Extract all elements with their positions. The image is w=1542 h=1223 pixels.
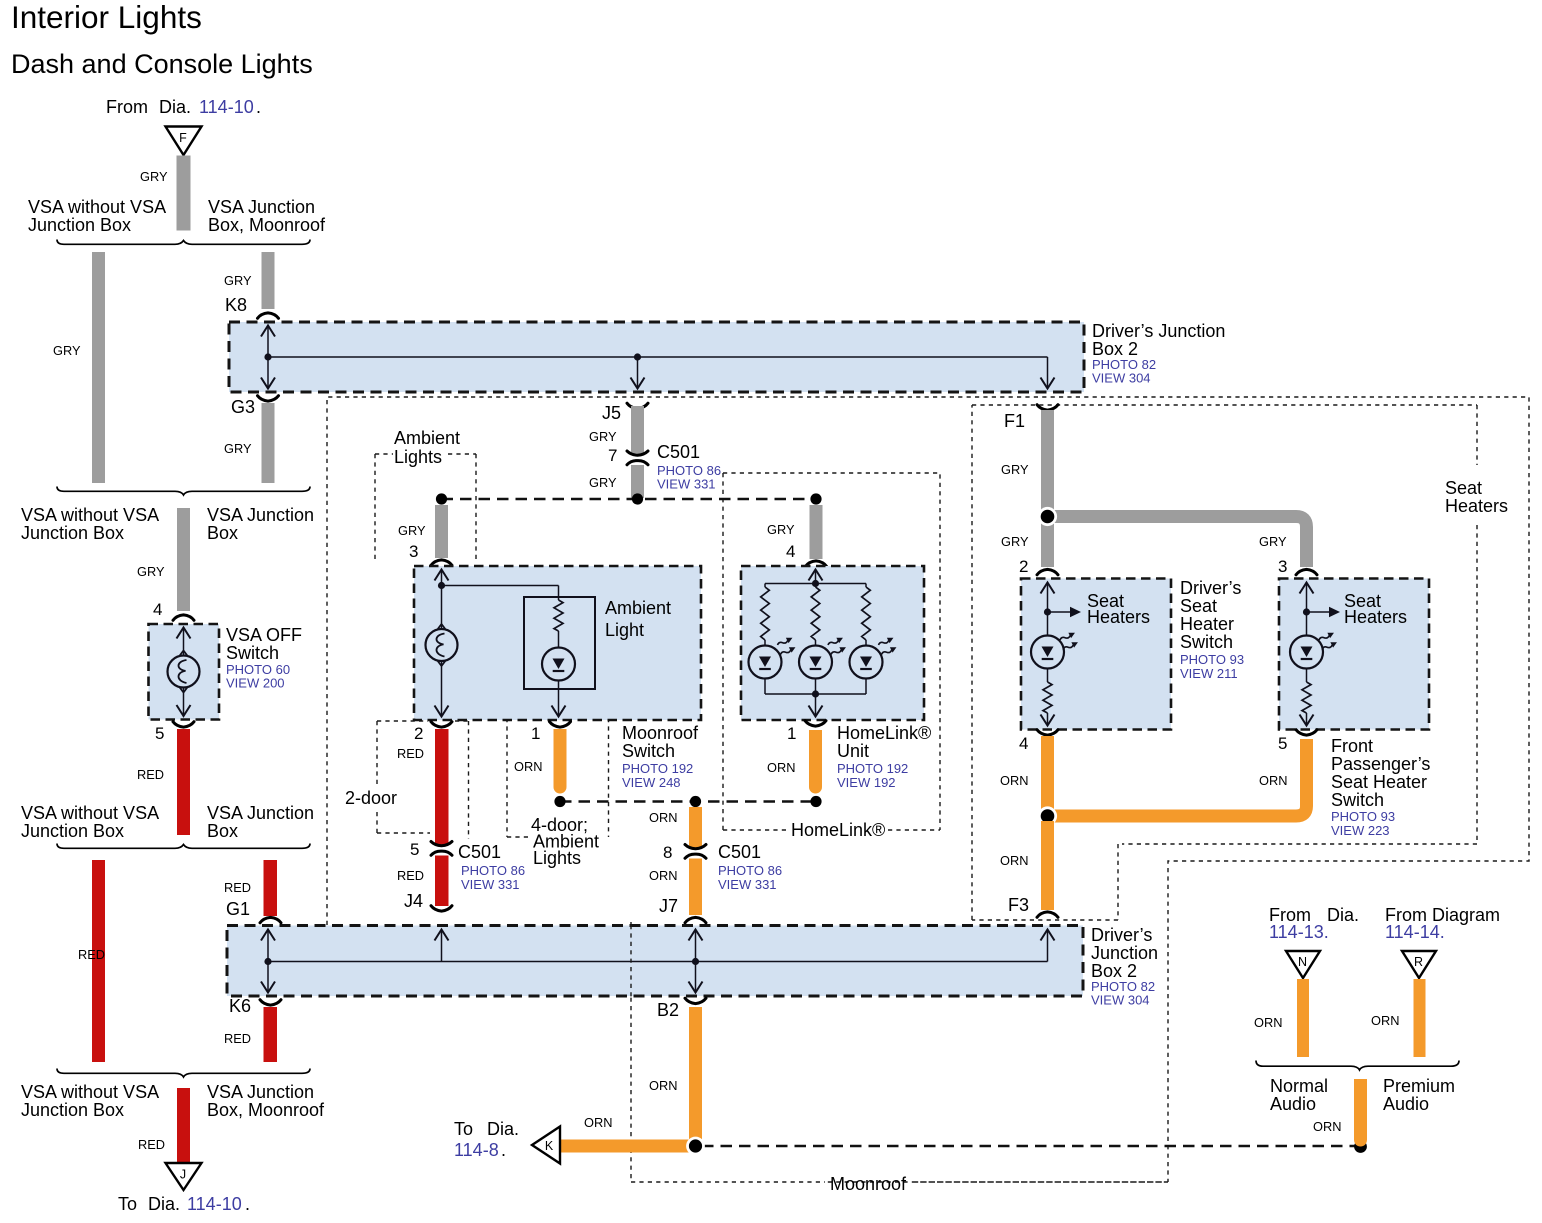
svg-text:RED: RED <box>137 767 164 782</box>
svg-text:Junction Box: Junction Box <box>21 1100 124 1120</box>
svg-text:Dia.: Dia. <box>1327 905 1359 925</box>
svg-text:ORN: ORN <box>514 759 542 774</box>
svg-text:GRY: GRY <box>398 523 426 538</box>
svg-text:.: . <box>501 1140 506 1160</box>
svg-text:ORN: ORN <box>1259 773 1287 788</box>
svg-text:114-14.: 114-14. <box>1385 922 1445 942</box>
svg-text:Switch: Switch <box>622 741 675 761</box>
svg-text:Dia.: Dia. <box>487 1119 519 1139</box>
svg-text:Junction Box: Junction Box <box>21 523 124 543</box>
svg-text:Premium: Premium <box>1383 1076 1455 1096</box>
svg-text:4: 4 <box>786 542 795 561</box>
svg-text:Moonroof: Moonroof <box>830 1174 907 1194</box>
svg-text:Audio: Audio <box>1270 1094 1316 1114</box>
svg-text:Unit: Unit <box>837 741 869 761</box>
svg-text:VSA without VSA: VSA without VSA <box>21 803 159 823</box>
svg-text:Switch: Switch <box>226 643 279 663</box>
svg-text:To: To <box>118 1194 137 1214</box>
svg-text:4: 4 <box>153 600 162 619</box>
svg-text:J5: J5 <box>602 403 621 423</box>
svg-text:GRY: GRY <box>53 343 81 358</box>
svg-text:Ambient: Ambient <box>605 598 671 618</box>
svg-text:G1: G1 <box>226 899 250 919</box>
svg-text:PHOTO 86: PHOTO 86 <box>718 863 782 878</box>
svg-text:Passenger’s: Passenger’s <box>1331 754 1430 774</box>
svg-text:Heater: Heater <box>1180 614 1234 634</box>
svg-text:VSA OFF: VSA OFF <box>226 625 302 645</box>
svg-text:GRY: GRY <box>224 273 252 288</box>
svg-text:J4: J4 <box>404 891 423 911</box>
svg-text:2-door: 2-door <box>345 788 397 808</box>
svg-text:ORN: ORN <box>584 1115 612 1130</box>
svg-text:VSA Junction: VSA Junction <box>208 197 315 217</box>
svg-text:RED: RED <box>224 1031 251 1046</box>
svg-text:3: 3 <box>1278 557 1287 576</box>
svg-text:RED: RED <box>397 868 424 883</box>
svg-text:Junction Box: Junction Box <box>28 215 131 235</box>
svg-text:VSA Junction: VSA Junction <box>207 803 314 823</box>
svg-text:VSA without VSA: VSA without VSA <box>21 1082 159 1102</box>
svg-text:VSA without VSA: VSA without VSA <box>21 505 159 525</box>
svg-text:1: 1 <box>787 724 796 743</box>
svg-text:PHOTO 192: PHOTO 192 <box>622 761 693 776</box>
svg-text:VIEW 304: VIEW 304 <box>1092 371 1151 386</box>
svg-text:ORN: ORN <box>1371 1013 1399 1028</box>
svg-text:8: 8 <box>663 843 672 862</box>
svg-text:Normal: Normal <box>1270 1076 1328 1096</box>
svg-text:ORN: ORN <box>1000 853 1028 868</box>
svg-text:RED: RED <box>224 880 251 895</box>
svg-text:ORN: ORN <box>1000 773 1028 788</box>
svg-text:Seat: Seat <box>1445 478 1482 498</box>
svg-text:F: F <box>179 131 187 145</box>
svg-text:114-8: 114-8 <box>454 1140 499 1160</box>
svg-text:From: From <box>106 97 148 117</box>
svg-text:VIEW 304: VIEW 304 <box>1091 993 1150 1008</box>
svg-text:.: . <box>256 97 261 117</box>
svg-text:VIEW 200: VIEW 200 <box>226 676 285 691</box>
svg-text:7: 7 <box>608 446 617 465</box>
svg-text:Box: Box <box>207 821 238 841</box>
svg-text:G3: G3 <box>231 397 255 417</box>
svg-text:VIEW 248: VIEW 248 <box>622 775 681 790</box>
svg-text:.: . <box>245 1194 250 1214</box>
svg-text:C501: C501 <box>718 842 761 862</box>
svg-text:Lights: Lights <box>394 447 442 467</box>
svg-text:114-10: 114-10 <box>199 97 254 117</box>
svg-text:Seat Heater: Seat Heater <box>1331 772 1427 792</box>
svg-text:Light: Light <box>605 620 644 640</box>
svg-text:F1: F1 <box>1004 411 1025 431</box>
svg-text:GRY: GRY <box>767 522 795 537</box>
svg-text:Junction: Junction <box>1091 943 1158 963</box>
svg-text:ORN: ORN <box>1254 1015 1282 1030</box>
svg-text:C501: C501 <box>458 842 501 862</box>
svg-text:114-10: 114-10 <box>187 1194 242 1214</box>
svg-text:VSA Junction: VSA Junction <box>207 505 314 525</box>
svg-text:Box, Moonroof: Box, Moonroof <box>208 215 326 235</box>
svg-text:Interior Lights: Interior Lights <box>11 0 202 35</box>
svg-text:Box 2: Box 2 <box>1091 961 1137 981</box>
svg-text:GRY: GRY <box>1001 534 1029 549</box>
svg-text:5: 5 <box>410 840 419 859</box>
svg-text:HomeLink®: HomeLink® <box>837 723 931 743</box>
svg-text:GRY: GRY <box>137 564 165 579</box>
svg-text:Box, Moonroof: Box, Moonroof <box>207 1100 325 1120</box>
svg-text:ORN: ORN <box>767 760 795 775</box>
svg-text:PHOTO 86: PHOTO 86 <box>461 863 525 878</box>
svg-text:VIEW 331: VIEW 331 <box>461 877 520 892</box>
svg-text:VIEW 192: VIEW 192 <box>837 775 896 790</box>
svg-text:C501: C501 <box>657 442 700 462</box>
svg-text:VIEW 211: VIEW 211 <box>1180 666 1238 681</box>
svg-text:5: 5 <box>1278 734 1287 753</box>
svg-text:114-13.: 114-13. <box>1269 922 1329 942</box>
svg-text:K6: K6 <box>229 996 251 1016</box>
svg-text:Audio: Audio <box>1383 1094 1429 1114</box>
svg-text:VSA Junction: VSA Junction <box>207 1082 314 1102</box>
svg-text:J7: J7 <box>659 896 678 916</box>
svg-text:Switch: Switch <box>1180 632 1233 652</box>
svg-text:2: 2 <box>414 724 423 743</box>
svg-text:4: 4 <box>1019 734 1028 753</box>
svg-text:GRY: GRY <box>1259 534 1287 549</box>
svg-text:ORN: ORN <box>1313 1119 1341 1134</box>
svg-text:Driver’s: Driver’s <box>1091 925 1152 945</box>
svg-text:K: K <box>545 1139 554 1153</box>
svg-text:GRY: GRY <box>224 441 252 456</box>
svg-text:GRY: GRY <box>1001 462 1029 477</box>
svg-text:5: 5 <box>155 724 164 743</box>
svg-text:PHOTO 93: PHOTO 93 <box>1331 809 1395 824</box>
svg-text:Seat: Seat <box>1180 596 1217 616</box>
svg-text:VIEW 331: VIEW 331 <box>657 477 716 492</box>
svg-text:RED: RED <box>78 947 105 962</box>
svg-text:J: J <box>180 1168 186 1182</box>
svg-text:N: N <box>1298 955 1307 969</box>
svg-text:3: 3 <box>409 542 418 561</box>
svg-text:ORN: ORN <box>649 1078 677 1093</box>
svg-text:HomeLink®: HomeLink® <box>791 820 885 840</box>
svg-text:PHOTO 93: PHOTO 93 <box>1180 652 1244 667</box>
svg-text:Box 2: Box 2 <box>1092 339 1138 359</box>
svg-text:Dash and Console Lights: Dash and Console Lights <box>11 49 313 79</box>
svg-text:Moonroof: Moonroof <box>622 723 699 743</box>
svg-text:Driver’s Junction: Driver’s Junction <box>1092 321 1225 341</box>
svg-text:VIEW 331: VIEW 331 <box>718 877 777 892</box>
svg-text:F3: F3 <box>1008 895 1029 915</box>
svg-text:Junction Box: Junction Box <box>21 821 124 841</box>
svg-text:K8: K8 <box>225 295 247 315</box>
svg-text:Front: Front <box>1331 736 1373 756</box>
svg-text:VIEW 223: VIEW 223 <box>1331 823 1390 838</box>
svg-text:Dia.: Dia. <box>148 1194 180 1214</box>
svg-text:RED: RED <box>138 1137 165 1152</box>
svg-text:Switch: Switch <box>1331 790 1384 810</box>
svg-text:Heaters: Heaters <box>1344 607 1407 627</box>
svg-text:R: R <box>1414 955 1423 969</box>
svg-text:RED: RED <box>397 746 424 761</box>
svg-text:Lights: Lights <box>533 848 581 868</box>
svg-text:1: 1 <box>531 724 540 743</box>
svg-text:VSA without VSA: VSA without VSA <box>28 197 166 217</box>
svg-text:B2: B2 <box>657 1000 679 1020</box>
svg-text:PHOTO 192: PHOTO 192 <box>837 761 908 776</box>
svg-text:Driver’s: Driver’s <box>1180 578 1241 598</box>
svg-text:Ambient: Ambient <box>394 428 460 448</box>
svg-text:ORN: ORN <box>649 810 677 825</box>
svg-text:GRY: GRY <box>589 429 617 444</box>
svg-text:ORN: ORN <box>649 868 677 883</box>
svg-text:Heaters: Heaters <box>1087 607 1150 627</box>
svg-text:Heaters: Heaters <box>1445 496 1508 516</box>
svg-text:To: To <box>454 1119 473 1139</box>
svg-text:GRY: GRY <box>140 169 168 184</box>
svg-text:Box: Box <box>207 523 238 543</box>
svg-text:2: 2 <box>1019 557 1028 576</box>
svg-text:GRY: GRY <box>589 475 617 490</box>
svg-text:Dia.: Dia. <box>159 97 191 117</box>
